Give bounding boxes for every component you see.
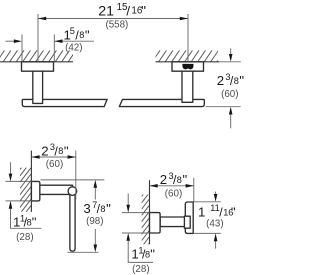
BL dim 1 1/8 ext top	[6, 180, 32, 182]
wall hatch bottom-left	[20, 155, 32, 227]
set screw slot	[182, 64, 193, 70]
svg-text:11/8": 11/8"	[13, 213, 37, 229]
svg-text:23/8": 23/8"	[41, 142, 69, 158]
wall hatch top-right	[146, 50, 225, 62]
BR dim 1 1/8 ext bottom	[122, 232, 150, 234]
dim 1 5/8 ext left	[21, 35, 23, 62]
BL dim 3 7/8 ext bottom	[68, 251, 99, 253]
hook plate	[185, 202, 193, 233]
BR dim 1 11/16 bottom seg	[215, 239, 217, 248]
dim 1 5/8 line	[54, 40, 94, 42]
svg-text:23/8": 23/8"	[217, 72, 245, 88]
BL dim 3 7/8 ext top	[41, 179, 105, 181]
BR dim 2 3/8 ext right	[193, 178, 195, 202]
dim 21 15/16 line	[38, 18, 188, 20]
holder arm	[40, 185, 73, 194]
BR dim 1 11/16 top seg	[215, 192, 217, 197]
svg-text:(60): (60)	[46, 159, 63, 170]
BR dim 1 1/8 leader	[128, 239, 153, 263]
BL dim 1 1/8 top seg	[10, 162, 12, 175]
left post	[33, 71, 43, 103]
dim 1 5/8 ext right	[53, 35, 55, 62]
BL dim 1 1/8 leader	[11, 207, 42, 229]
svg-text:(43): (43)	[206, 219, 223, 230]
dim 2 3/8 top seg	[230, 48, 232, 56]
svg-text:(60): (60)	[221, 89, 238, 100]
svg-text:37/8": 37/8"	[83, 200, 111, 216]
svg-text:15/8": 15/8"	[64, 26, 90, 42]
svg-text:(42): (42)	[65, 42, 82, 53]
dim 2 3/8 bottom seg	[230, 113, 232, 129]
wall hatch top-left	[0, 50, 83, 62]
hook arm	[160, 217, 186, 227]
hook wall plate	[150, 213, 161, 233]
BL dim 2 3/8 line	[31, 156, 75, 158]
right post	[182, 71, 193, 102]
holder pivot circle	[68, 187, 77, 196]
BR hook ext bottom	[194, 232, 221, 234]
wall line top-right	[156, 61, 220, 63]
right mounting plate	[172, 62, 204, 71]
BR dim 1 1/8 ext top	[122, 212, 150, 214]
BL dim 3 7/8 top seg	[94, 186, 96, 200]
BL dim 1 1/8 ext bottom	[6, 200, 32, 202]
wall hatch bottom-right	[142, 186, 150, 253]
holder wall plate	[31, 181, 39, 201]
dim 21 15/16 ext line left	[37, 14, 39, 62]
svg-text:(28): (28)	[132, 264, 149, 275]
svg-text:11/8": 11/8"	[131, 245, 155, 261]
dim 21 15/16 ext line right	[187, 14, 189, 62]
svg-text:(98): (98)	[86, 216, 103, 227]
left mounting plate	[22, 62, 54, 71]
svg-text:(60): (60)	[165, 189, 182, 200]
holder rod	[70, 191, 75, 252]
svg-text:23/8": 23/8"	[160, 171, 188, 187]
wall line bottom-right	[149, 180, 151, 244]
towel bar left segment	[22, 99, 107, 106]
wall line top-left	[0, 61, 73, 63]
BR dim 1 1/8 top seg	[127, 194, 129, 208]
BL dim 3 7/8 bottom seg	[94, 229, 96, 247]
BR hook ext top	[194, 201, 221, 203]
dim 2 3/8 bottom ext	[206, 106, 241, 108]
dim 1 5/8 stub left	[6, 40, 17, 42]
svg-text:(28): (28)	[16, 232, 33, 243]
BL dim 2 3/8 ext right	[75, 151, 77, 200]
wall line bottom-left	[30, 151, 32, 212]
svg-text:(558): (558)	[105, 20, 128, 31]
dim 2 3/8 wall ext	[219, 61, 241, 63]
towel bar right segment	[119, 99, 204, 106]
BR dim 2 3/8 line	[150, 185, 194, 187]
hook collar	[184, 216, 190, 228]
